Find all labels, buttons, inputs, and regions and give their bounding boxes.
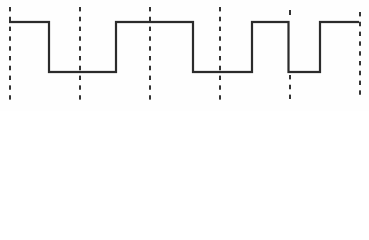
bit-boundary dashed line 1 (9, 7, 11, 100)
bit-boundary dashed line 5 (lower segment) (289, 75, 291, 100)
bit-boundary dashed line 5 (upper dash) (289, 10, 291, 15)
bit-boundary dashed line 4 (219, 7, 221, 100)
bit-boundary dashed line 3 (149, 7, 151, 100)
bit-boundary dashed line 2 (79, 7, 81, 100)
bit-boundary dashed line 6 (359, 12, 361, 100)
waveform trace (9, 22, 359, 72)
